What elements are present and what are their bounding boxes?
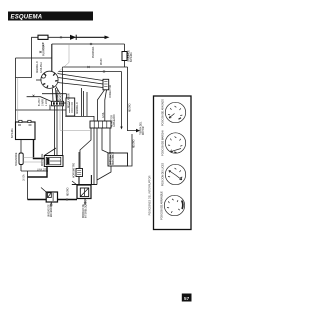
svg-text:ENCENDIDO: ENCENDIDO — [51, 203, 53, 217]
svg-text:POSICION DE APAGADO: POSICION DE APAGADO — [162, 99, 165, 126]
svg-text:NEGRO: NEGRO — [58, 93, 60, 102]
svg-text:BATERIA: BATERIA — [130, 52, 133, 62]
svg-text:POSICION DE LUCES: POSICION DE LUCES — [163, 162, 165, 186]
svg-text:ELECTRICO: ELECTRICO — [113, 152, 115, 165]
svg-text:AMARILLO: AMARILLO — [36, 61, 39, 73]
svg-text:POSICION DE ARRANQUE: POSICION DE ARRANQUE — [161, 191, 164, 220]
svg-text:ROJO: ROJO — [61, 94, 63, 101]
svg-text:MOTOR: MOTOR — [143, 126, 145, 135]
svg-text:SOLENOIDE: SOLENOIDE — [16, 152, 18, 166]
svg-text:AZUL: AZUL — [102, 111, 105, 118]
svg-text:MOTOR DE: MOTOR DE — [42, 153, 44, 166]
svg-text:CABLEADO: CABLEADO — [113, 114, 116, 127]
svg-text:16 GA: 16 GA — [23, 174, 26, 181]
svg-text:PURPURA: PURPURA — [92, 46, 95, 58]
svg-text:BATERIA: BATERIA — [11, 128, 14, 138]
svg-text:B+ BAT: B+ BAT — [38, 98, 41, 106]
svg-text:CONECTOR: CONECTOR — [110, 85, 112, 98]
svg-text:NEGRO: NEGRO — [68, 187, 70, 196]
svg-text:POSICIONES DEL INTERRUPTOR: POSICIONES DEL INTERRUPTOR — [149, 175, 152, 215]
svg-text:ROJO: ROJO — [101, 58, 103, 65]
svg-text:15 AMP: 15 AMP — [42, 41, 45, 50]
svg-text:INTERBLOQUEO: INTERBLOQUEO — [86, 200, 88, 218]
svg-text:57: 57 — [184, 296, 190, 301]
svg-text:POSICION DE MARCHA: POSICION DE MARCHA — [162, 130, 165, 156]
svg-text:ESQUEMA: ESQUEMA — [11, 15, 43, 21]
svg-text:NEGRO: NEGRO — [130, 103, 132, 112]
svg-text:L LUC: L LUC — [46, 99, 48, 106]
svg-text:S ARR: S ARR — [42, 99, 45, 106]
svg-text:AMARILLO: AMARILLO — [76, 102, 79, 114]
svg-text:AZUL/BLA: AZUL/BLA — [40, 62, 43, 73]
svg-text:LINK 37B: LINK 37B — [37, 168, 48, 171]
svg-text:HOROMETRO: HOROMETRO — [74, 163, 76, 178]
svg-text:NEGRO: NEGRO — [134, 139, 136, 148]
svg-text:REGULADOR: REGULADOR — [68, 93, 71, 108]
